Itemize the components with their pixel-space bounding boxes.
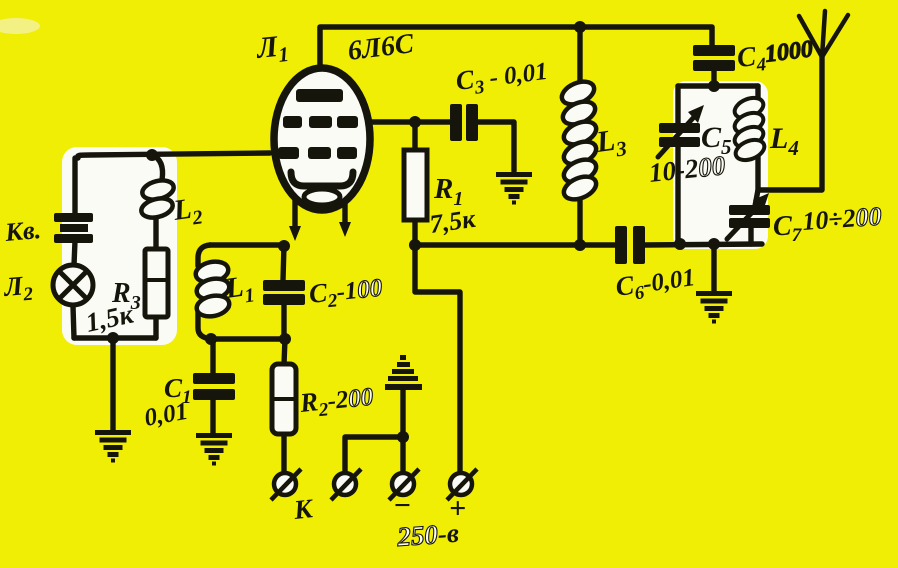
wire B+ drop to terminal: [415, 245, 460, 472]
svg-text:Кв.: Кв.: [3, 215, 42, 247]
ground (power, apex up): [385, 355, 422, 390]
wire grid lead from oscillator to tube: [78, 153, 270, 158]
crystal KB plates: [54, 213, 93, 243]
coil L4: [732, 94, 768, 164]
wire C7 bottom lead: [748, 226, 753, 244]
wire R3 to loop bottom: [153, 317, 158, 338]
node L2 top / grid wire junction: [146, 149, 158, 161]
tube filament: [304, 189, 340, 205]
wire oscillator loop left side: [73, 158, 75, 338]
node L3 bottom / rail junction: [574, 239, 586, 251]
wire anode top rail: [320, 27, 712, 95]
node C4 / tank top junction: [708, 80, 720, 92]
node minus terminal / ground junction: [397, 431, 409, 443]
terminal minus 250v: [389, 469, 419, 500]
wire C2 bottom lead: [281, 304, 286, 339]
wire C3 to ground corner: [477, 122, 514, 171]
node oscillator bottom / ground junction: [107, 332, 119, 344]
tube heater arrowhead: [339, 222, 351, 237]
wire oscillator loop bottom: [74, 335, 156, 340]
terminal plus 250v: [447, 469, 477, 500]
capacitor C4 plates: [693, 45, 735, 71]
svg-text:10÷200: 10÷200: [801, 202, 882, 236]
wire C5 branch bottom: [675, 146, 680, 244]
wire tank top: [678, 83, 758, 88]
svg-text:250-в: 250-в: [395, 518, 460, 552]
capacitor C3 plates: [450, 104, 478, 141]
white highlight panel (plate tank box): [673, 81, 768, 249]
wire grid tank left side with L1: [198, 245, 212, 339]
wire L3 bottom lead: [577, 193, 582, 245]
scan smudge top left: [0, 18, 40, 34]
ground (C3): [496, 172, 532, 205]
capacitor C2 plates: [263, 280, 305, 305]
capacitor C6 plates: [615, 226, 645, 264]
wire power ground drop: [400, 390, 405, 472]
tube screen grid dashes: [283, 116, 302, 128]
wire L3 top lead: [577, 27, 582, 86]
tube control grid dashes: [278, 147, 299, 159]
terminal aux: [331, 469, 361, 500]
ground (oscillator): [95, 430, 131, 463]
wire bottom B+ rail to C6: [415, 242, 616, 247]
wire R1 top lead: [412, 122, 417, 152]
resistor R1: [404, 150, 427, 220]
node anode rail / L3 top junction: [574, 21, 586, 33]
wire L2 top hook: [152, 155, 163, 180]
capacitor C5 arrow: [658, 117, 694, 157]
node grid tank top / C2 junction: [278, 240, 290, 252]
wire C5 branch top: [675, 86, 680, 124]
node C5 branch bottom junction: [674, 238, 686, 250]
node screen grid / C3 / R1 junction: [409, 116, 421, 128]
wire L2 to R3: [153, 214, 158, 249]
ground (tank): [696, 291, 732, 324]
lamp Л2: [53, 265, 93, 305]
wire C1 lead: [210, 339, 215, 433]
wire R2 to terminal K: [281, 434, 286, 472]
wire antenna feed: [758, 56, 822, 190]
antenna prongs: [799, 11, 848, 57]
node tank bottom / ground junction: [708, 238, 720, 250]
node R1 bottom / B+ rail junction: [409, 239, 421, 251]
wire grid tank bottom rail: [212, 336, 285, 341]
capacitor C5 plates: [659, 123, 700, 147]
coil L3: [558, 77, 599, 204]
tube cathode lead with arrow: [292, 194, 297, 229]
tube heater lead with arrow: [342, 198, 347, 225]
resistor R2: [272, 364, 296, 434]
tube Л1 envelope: [274, 68, 370, 210]
wire terminal 2 riser: [345, 437, 403, 472]
capacitor C1 plates: [193, 373, 235, 400]
node L1 bottom / C1 junction: [205, 333, 217, 345]
wire L4 branch: [755, 86, 758, 206]
terminal K: [271, 469, 301, 500]
tube cathode: [291, 172, 353, 186]
white highlight panel (oscillator box): [62, 147, 177, 345]
wire grid tank top rail: [210, 245, 284, 280]
wire C6 to tank bottom: [645, 244, 762, 245]
capacitor C7 plates: [729, 205, 770, 228]
tube cathode arrowhead: [289, 226, 301, 241]
node C2 bottom / R2 junction: [279, 333, 291, 345]
capacitor C7 arrow: [727, 204, 760, 239]
ground (C1): [196, 433, 232, 466]
coil L1: [194, 259, 231, 319]
wire C4 lead into tank box: [711, 69, 716, 88]
svg-text:−: −: [393, 489, 411, 522]
wire screen grid lead to node: [366, 119, 451, 124]
coil L2: [139, 177, 175, 220]
wire ground branch under tank: [711, 244, 716, 291]
wire R2 top lead: [284, 339, 285, 364]
tube anode plate: [278, 89, 358, 159]
crystal KB body: [60, 224, 88, 232]
wire oscillator ground lead: [110, 338, 115, 430]
wire R1 bottom lead: [412, 220, 417, 245]
resistor R3: [145, 249, 168, 317]
